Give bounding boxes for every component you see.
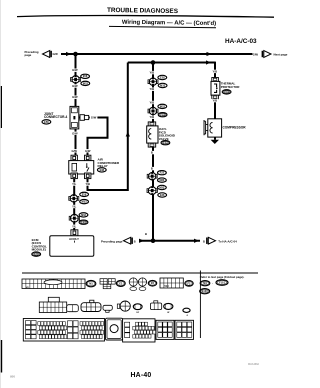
svg-text:page: page bbox=[25, 53, 32, 57]
svg-text:Y/B: Y/B bbox=[213, 69, 218, 73]
svg-text:E101: E101 bbox=[202, 290, 208, 293]
svg-text:Y/B: Y/B bbox=[213, 99, 218, 103]
svg-text:G/W: G/W bbox=[85, 149, 91, 153]
svg-text:M4: M4 bbox=[203, 282, 207, 285]
svg-text:F23: F23 bbox=[160, 172, 165, 175]
svg-text:950: 950 bbox=[10, 375, 15, 379]
svg-text:M1: M1 bbox=[89, 283, 93, 286]
svg-text:E58: E58 bbox=[44, 121, 49, 124]
svg-text:Y/L: Y/L bbox=[72, 182, 77, 186]
svg-text:TROUBLE DIAGNOSES: TROUBLE DIAGNOSES bbox=[107, 7, 179, 15]
svg-text:G/W: G/W bbox=[72, 149, 78, 153]
svg-text:B: B bbox=[151, 167, 153, 171]
svg-text:HA-40: HA-40 bbox=[131, 372, 152, 379]
svg-text:B: B bbox=[151, 151, 153, 155]
svg-text:G/W: G/W bbox=[53, 52, 59, 56]
svg-text:B: B bbox=[134, 240, 136, 244]
svg-text:MODULE): MODULE) bbox=[32, 248, 46, 252]
svg-text:M33: M33 bbox=[159, 179, 164, 182]
svg-text:E58: E58 bbox=[83, 75, 88, 78]
svg-text:B: B bbox=[145, 232, 147, 236]
svg-text:Refer to last page (Foldout pa: Refer to last page (Foldout page). bbox=[200, 275, 245, 279]
svg-text:F23: F23 bbox=[163, 142, 168, 145]
svg-text:COMPRESSOR: COMPRESSOR bbox=[223, 126, 247, 130]
svg-text:B: B bbox=[203, 240, 205, 244]
svg-text:Y/B: Y/B bbox=[150, 101, 155, 105]
svg-text:M33: M33 bbox=[159, 186, 164, 189]
svg-text:Y/L: Y/L bbox=[72, 224, 77, 228]
svg-text:G/W: G/W bbox=[253, 52, 259, 56]
svg-text:M33: M33 bbox=[83, 82, 88, 85]
svg-text:F44: F44 bbox=[224, 91, 229, 94]
svg-text:G/W: G/W bbox=[91, 116, 97, 120]
svg-text:F23: F23 bbox=[160, 114, 165, 117]
svg-text:E38: E38 bbox=[100, 169, 105, 172]
svg-text:M33: M33 bbox=[82, 201, 87, 204]
svg-text:M33: M33 bbox=[81, 214, 86, 217]
svg-text:F101: F101 bbox=[219, 281, 225, 284]
svg-text:G/W: G/W bbox=[72, 131, 78, 135]
svg-text:E28: E28 bbox=[160, 76, 165, 79]
svg-text:MHA488A: MHA488A bbox=[248, 363, 259, 366]
svg-text:F23: F23 bbox=[34, 253, 39, 256]
svg-text:G/W: G/W bbox=[72, 95, 78, 99]
svg-text:F23: F23 bbox=[81, 221, 86, 224]
svg-text:Y/B: Y/B bbox=[150, 71, 155, 75]
svg-text:Preceding page: Preceding page bbox=[101, 239, 123, 243]
svg-text:CONNECTOR-4: CONNECTOR-4 bbox=[44, 115, 68, 119]
svg-text:GY: GY bbox=[136, 312, 140, 314]
svg-text:M33: M33 bbox=[160, 105, 165, 108]
svg-text:G/W: G/W bbox=[72, 68, 78, 72]
svg-text:51X: 51X bbox=[165, 285, 170, 288]
svg-text:PROTECTOR: PROTECTOR bbox=[221, 85, 241, 89]
svg-text:Y/B: Y/B bbox=[150, 115, 155, 119]
svg-text:Y/B: Y/B bbox=[85, 182, 90, 186]
svg-text:·: · bbox=[212, 281, 213, 285]
svg-text:To HA-A/C-04: To HA-A/C-04 bbox=[218, 240, 237, 244]
svg-text:E28: E28 bbox=[160, 194, 165, 197]
svg-text:M33: M33 bbox=[160, 84, 165, 87]
svg-text:Next page: Next page bbox=[274, 52, 288, 56]
svg-text:HA-A/C-03: HA-A/C-03 bbox=[225, 38, 257, 45]
svg-text:G/W: G/W bbox=[72, 84, 78, 88]
svg-text:Y/B: Y/B bbox=[150, 87, 155, 91]
svg-text:Y/L: Y/L bbox=[72, 205, 77, 209]
svg-text:ACRLY: ACRLY bbox=[69, 237, 79, 241]
svg-text:E58: E58 bbox=[82, 193, 87, 196]
